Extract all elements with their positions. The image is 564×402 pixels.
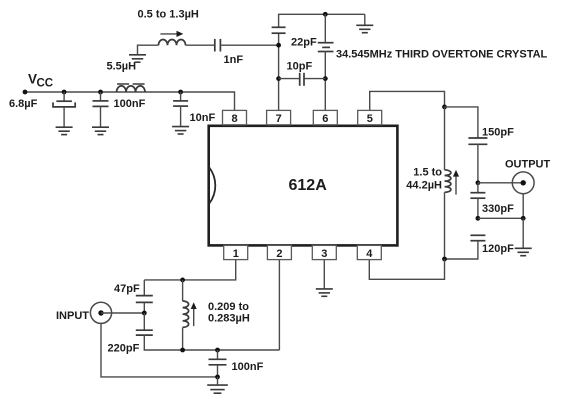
ground below pin 3 [316, 289, 333, 296]
ground below 100nF [92, 127, 109, 134]
inductor L 0.209 to 0.283uH (variable) [183, 280, 197, 350]
svg-text:120pF: 120pF [482, 243, 514, 255]
svg-text:612A: 612A [289, 177, 328, 194]
svg-text:2: 2 [276, 248, 282, 260]
svg-text:5.5µH: 5.5µH [107, 60, 137, 72]
svg-text:10nF: 10nF [190, 112, 216, 124]
ground at variable inductor L2 [129, 55, 146, 62]
pin 1 [224, 245, 248, 260]
node junction crystal top [323, 12, 328, 17]
ground below 10nF [172, 127, 189, 134]
ground right of 120pF [515, 218, 532, 255]
capacitor 1nF [215, 39, 221, 52]
svg-text:220pF: 220pF [108, 343, 140, 355]
wire tank top branch [445, 107, 478, 138]
node junction 330pF bottom [476, 216, 481, 221]
node junction inductor bottom [180, 348, 185, 353]
svg-text:47pF: 47pF [114, 283, 140, 295]
svg-text:INPUT: INPUT [56, 310, 89, 322]
svg-text:22pF: 22pF [291, 36, 317, 48]
svg-text:150pF: 150pF [482, 126, 514, 138]
pin 8 [223, 110, 247, 125]
pin 4 [357, 245, 381, 260]
capacitor 100nF (bottom) [209, 350, 227, 377]
capacitor 6.8uF (electrolytic) [53, 92, 75, 127]
node VCC terminal [23, 90, 28, 95]
capacitor 22pF [272, 27, 286, 33]
pin 6 [313, 110, 337, 125]
wire input shield to ground [101, 323, 218, 377]
wire inductor left leg [138, 45, 159, 55]
node junction crystal/10pF [323, 76, 328, 81]
capacitor 10nF [173, 92, 188, 127]
inductor L 1.5 to 44.2uH (variable) [445, 107, 460, 259]
svg-text:6: 6 [322, 113, 328, 125]
wire output connector down [478, 194, 523, 219]
node junction tank bottom [442, 257, 447, 262]
wire inductor to 1nF [186, 44, 215, 46]
node junction input [142, 311, 147, 316]
svg-text:1: 1 [233, 248, 239, 260]
svg-text:0.5 to 1.3µH: 0.5 to 1.3µH [138, 8, 199, 20]
node junction pin7/1nF [276, 43, 281, 48]
svg-text:4: 4 [366, 248, 373, 260]
op-amp U1 612A body [209, 126, 398, 246]
wire pin 2 down [278, 260, 280, 351]
wire pin 7 vertical line [279, 14, 365, 110]
svg-text:44.2µH: 44.2µH [406, 179, 442, 191]
pin 5 [358, 110, 382, 125]
capacitor 47pF [136, 280, 153, 313]
wire output node to connector [478, 182, 523, 184]
ground bottom [207, 377, 228, 393]
wire pin 4 to tank bottom [369, 259, 444, 279]
node junction 10nF [178, 90, 183, 95]
svg-text:100nF: 100nF [114, 98, 146, 110]
svg-text:7: 7 [276, 113, 282, 125]
svg-text:0.209 to: 0.209 to [208, 301, 249, 313]
connector INPUT [90, 302, 111, 323]
node junction output [476, 180, 481, 185]
inductor L 5.5uH [117, 84, 145, 92]
ground below 6.8uF [56, 127, 73, 134]
wire 1nF to pin7 line [220, 44, 278, 46]
node junction bottom ground [215, 375, 220, 380]
svg-text:3: 3 [321, 248, 327, 260]
svg-text:1.5 to: 1.5 to [413, 167, 442, 179]
pin 3 [312, 245, 336, 260]
svg-text:OUTPUT: OUTPUT [505, 158, 551, 170]
svg-text:330pF: 330pF [482, 203, 514, 215]
capacitor 150pF [468, 138, 487, 144]
pin 2 [267, 245, 291, 260]
node junction 100nF [98, 90, 103, 95]
wire 150pF to output node [477, 144, 479, 183]
wire pin 5 to tank [370, 91, 445, 110]
svg-text:CC: CC [37, 77, 54, 89]
svg-text:6.8µF: 6.8µF [9, 98, 38, 110]
svg-text:34.545MHz THIRD OVERTONE CRYST: 34.545MHz THIRD OVERTONE CRYSTAL [336, 48, 548, 60]
svg-text:0.283µH: 0.283µH [208, 313, 250, 325]
capacitor 330pF [470, 183, 485, 219]
crystal X1 34.545MHz [318, 14, 334, 110]
wire pin 3 to ground [323, 260, 325, 289]
node junction ground branch [521, 216, 526, 221]
wire pin 1 to input tank [144, 260, 235, 280]
svg-text:10pF: 10pF [287, 60, 313, 72]
capacitor 120pF [445, 235, 486, 259]
notch on IC left edge [209, 168, 215, 204]
node junction tank top left [180, 278, 185, 283]
node junction 6.8uF [62, 90, 67, 95]
node junction tank top [442, 105, 447, 110]
connector OUTPUT [512, 172, 534, 194]
capacitor 220pF [136, 313, 280, 350]
node junction pin7/10pF [276, 76, 281, 81]
wire input to junction [101, 312, 144, 314]
svg-text:8: 8 [232, 113, 238, 125]
node junction 100nF top [215, 348, 220, 353]
capacitor 100nF (VCC decoupling) [93, 92, 109, 127]
svg-text:5: 5 [367, 113, 373, 125]
capacitor 10pF [279, 73, 326, 86]
inductor L 0.5 to 1.3uH (variable) [159, 31, 186, 45]
ground top right [356, 14, 373, 32]
svg-text:100nF: 100nF [232, 361, 264, 373]
pin 7 [267, 110, 291, 125]
wire VCC rail to pin 8 [25, 92, 235, 110]
svg-text:1nF: 1nF [224, 54, 244, 66]
